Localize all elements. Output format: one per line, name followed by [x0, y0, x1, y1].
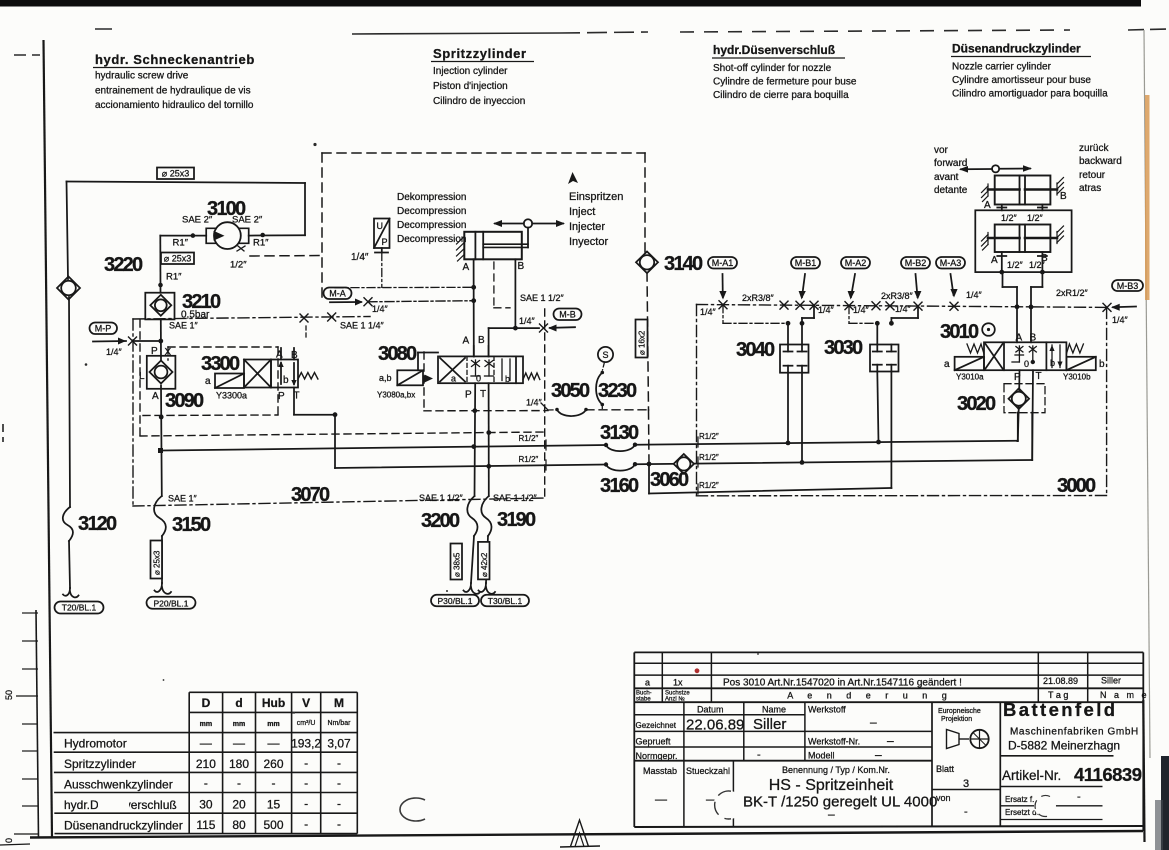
- svg-text:Werkstoff-Nr.: Werkstoff-Nr.: [808, 737, 860, 747]
- svg-text:Modell: Modell: [808, 751, 835, 761]
- measuring arrows down: [719, 274, 957, 300]
- svg-text:—: —: [268, 736, 280, 750]
- svg-text:Nozzle carrier cylinder: Nozzle carrier cylinder: [952, 62, 1052, 73]
- svg-text:Cylindre de fermeture pour bus: Cylindre de fermeture pour buse: [713, 77, 857, 88]
- svg-text:3: 3: [963, 778, 969, 790]
- svg-text:SAE 1 1/2″: SAE 1 1/2″: [520, 293, 565, 303]
- svg-text:⌀ 42x2: ⌀ 42x2: [480, 552, 489, 577]
- svg-text:b: b: [1050, 358, 1055, 368]
- svg-text:3030: 3030: [824, 337, 863, 359]
- svg-text:P: P: [151, 346, 158, 357]
- svg-text:R1/2″: R1/2″: [519, 434, 539, 443]
- svg-text:M: M: [334, 696, 344, 710]
- svg-text:Y3010a: Y3010a: [956, 373, 984, 382]
- connecting frame: [975, 210, 1071, 272]
- dashed transducer line at cylinder B: [494, 262, 510, 308]
- solenoids: [955, 357, 984, 370]
- svg-text:b: b: [283, 375, 289, 386]
- measuring point M-B3: [1111, 280, 1143, 325]
- svg-text:avant: avant: [934, 172, 959, 183]
- svg-text:Cilindro amortiguador para boq: Cilindro amortiguador para boquilla: [952, 89, 1108, 100]
- svg-text:R1/2″: R1/2″: [699, 432, 719, 441]
- svg-text:3220: 3220: [104, 254, 143, 276]
- svg-text:T: T: [480, 389, 486, 400]
- svg-text:a: a: [645, 678, 650, 688]
- svg-text:—: —: [655, 792, 667, 806]
- svg-text:–: –: [870, 715, 877, 729]
- svg-text:3,07: 3,07: [327, 737, 351, 751]
- svg-text:3190: 3190: [497, 509, 536, 531]
- svg-text:M-B3: M-B3: [1117, 281, 1139, 291]
- svg-text:stabe: stabe: [636, 697, 651, 703]
- svg-text:Gezeichnet: Gezeichnet: [636, 721, 677, 730]
- column headers: [93, 42, 1108, 112]
- svg-text:A: A: [984, 200, 991, 211]
- svg-text:A: A: [463, 336, 470, 347]
- svg-text:Decompression: Decompression: [397, 206, 466, 217]
- svg-text:–: –: [828, 807, 835, 821]
- svg-text:-: -: [237, 776, 241, 790]
- wires: cylinders to valve 3010: [1003, 272, 1043, 342]
- svg-text:HS - Spritzeinheit: HS - Spritzeinheit: [769, 777, 894, 794]
- hose 3190: [478, 496, 536, 594]
- svg-text:Maschinenfabriken GmbH: Maschinenfabriken GmbH: [1010, 727, 1139, 738]
- svg-text:—: —: [233, 736, 245, 750]
- svg-text:R1″: R1″: [253, 238, 269, 249]
- svg-text:D: D: [202, 696, 211, 710]
- label box d25x3 mid: [161, 253, 194, 283]
- svg-text:M-A1: M-A1: [712, 258, 734, 268]
- svg-text:B: B: [1030, 333, 1037, 344]
- R1/2 labels right cluster: [699, 432, 719, 490]
- svg-text:-: -: [1077, 791, 1081, 803]
- dashed manifold box B2: [140, 309, 545, 497]
- svg-text:-: -: [304, 797, 308, 811]
- svg-text:entrainement de hydraulique de: entrainement de hydraulique de vis: [95, 86, 251, 97]
- svg-text:Europneische: Europneische: [938, 708, 981, 715]
- svg-text:backward: backward: [1079, 156, 1122, 167]
- svg-text:-: -: [272, 776, 276, 790]
- title block: [634, 652, 1149, 831]
- svg-text:Ausschwenkzylinder: Ausschwenkzylinder: [64, 778, 173, 792]
- measuring point M-A: [324, 287, 474, 314]
- proportional valve 3080: [377, 335, 540, 401]
- svg-text:SAE 1″: SAE 1″: [169, 321, 199, 331]
- svg-text:-: -: [304, 756, 308, 770]
- svg-text:2xR3/8″: 2xR3/8″: [881, 291, 914, 301]
- svg-text:210: 210: [196, 757, 216, 771]
- row names: [64, 737, 183, 833]
- svg-text:B: B: [478, 335, 485, 346]
- svg-text:SAE 1″: SAE 1″: [168, 494, 198, 504]
- dash-dot 3000 box: [697, 305, 1108, 496]
- svg-text:1/4″: 1/4″: [526, 398, 543, 408]
- wire: T drain line lower right: [649, 373, 891, 494]
- svg-text:von: von: [936, 793, 951, 803]
- main block grid: [634, 702, 1143, 827]
- svg-text:M-B1: M-B1: [795, 258, 817, 268]
- svg-text:cm³/U: cm³/U: [297, 720, 316, 727]
- punch hole left: [400, 798, 425, 821]
- white smudge on row 4: [98, 796, 129, 812]
- svg-text:Hydromotor: Hydromotor: [64, 737, 127, 751]
- svg-text:-: -: [337, 776, 341, 790]
- direction arrows with circle: [959, 165, 1032, 172]
- svg-text:Spritzzylinder: Spritzzylinder: [433, 46, 527, 61]
- svg-text:—: —: [200, 736, 212, 750]
- left ruler strip at bottom: [36, 610, 39, 838]
- svg-text:A e n d e r u n g: A e n d e r u n g: [787, 691, 953, 701]
- svg-text:Cilindro de inyeccion: Cilindro de inyeccion: [433, 96, 525, 107]
- directional valve 3010: [940, 321, 1105, 383]
- hose 3150: [151, 496, 211, 594]
- svg-text:Düsenandruckzylinder: Düsenandruckzylinder: [952, 42, 1081, 56]
- svg-text:⌀ 25x3: ⌀ 25x3: [164, 254, 191, 264]
- header texts: [200, 696, 351, 728]
- svg-text:Normgepr.: Normgepr.: [636, 751, 678, 761]
- svg-text:1/2″: 1/2″: [230, 260, 247, 271]
- svg-text:3020: 3020: [957, 393, 996, 415]
- svg-text:BK-T /1250 geregelt UL 4000: BK-T /1250 geregelt UL 4000: [743, 794, 937, 811]
- svg-text:SAE 1 1/4″: SAE 1 1/4″: [340, 321, 385, 331]
- svg-text:193,2: 193,2: [291, 737, 321, 751]
- svg-text:hydr. Schneckenantrieb: hydr. Schneckenantrieb: [95, 52, 255, 67]
- valve block 3040: [736, 323, 809, 462]
- svg-text:3200: 3200: [421, 510, 460, 532]
- svg-text:Inyector: Inyector: [569, 236, 608, 248]
- wire: cylinder B line: [489, 259, 539, 356]
- injection cylinder: [457, 219, 566, 273]
- port oval P30/BL.1: [431, 595, 479, 607]
- svg-text:–: –: [875, 748, 882, 762]
- svg-text:3090: 3090: [165, 390, 204, 412]
- fold triangle bottom center: [571, 820, 589, 847]
- svg-text:1/2″: 1/2″: [1027, 213, 1044, 223]
- svg-text:3300: 3300: [201, 353, 240, 375]
- svg-text:-: -: [337, 756, 341, 770]
- measuring point M-B: [519, 309, 582, 333]
- svg-text:M-A2: M-A2: [845, 258, 867, 268]
- data table bottom left: [54, 692, 358, 833]
- svg-text:Decompression: Decompression: [397, 220, 466, 231]
- svg-text:B: B: [1060, 191, 1067, 202]
- svg-text:30: 30: [199, 798, 213, 812]
- svg-text:hydraulic screw drive: hydraulic screw drive: [95, 71, 189, 82]
- svg-text:-: -: [304, 776, 308, 790]
- svg-text:R1″: R1″: [173, 238, 189, 249]
- svg-text:Y3300a: Y3300a: [216, 391, 247, 401]
- svg-text:3160: 3160: [600, 475, 639, 497]
- wire: top line to motor: [67, 182, 306, 236]
- svg-text:zurück: zurück: [1079, 143, 1109, 154]
- svg-text:Injection cylinder: Injection cylinder: [433, 66, 508, 77]
- svg-text:R1/2″: R1/2″: [699, 481, 719, 490]
- svg-text:Y3080a,bx: Y3080a,bx: [377, 391, 415, 400]
- svg-text:A: A: [463, 262, 470, 273]
- svg-text:M-A3: M-A3: [940, 258, 962, 268]
- svg-text:M-P: M-P: [95, 324, 112, 334]
- svg-text:22.06.89: 22.06.89: [686, 717, 744, 734]
- svg-text:b: b: [1099, 359, 1105, 370]
- svg-text:⌀ 25x3: ⌀ 25x3: [153, 550, 162, 575]
- wire: pump riser left: [67, 182, 71, 508]
- right scan edge: [1144, 30, 1150, 758]
- svg-text:P: P: [382, 237, 388, 247]
- svg-text:3120: 3120: [78, 513, 117, 535]
- svg-text:500: 500: [263, 818, 283, 832]
- svg-text:SAE 1 1/2″: SAE 1 1/2″: [493, 493, 538, 503]
- svg-text:accionamiento hidraulico del t: accionamiento hidraulico del tornillo: [95, 100, 254, 111]
- svg-text:-: -: [337, 797, 341, 811]
- svg-text:-: -: [757, 749, 761, 761]
- svg-text:X: X: [165, 347, 172, 358]
- svg-text:Cylindre amortisseur pour buse: Cylindre amortisseur pour buse: [952, 75, 1091, 86]
- svg-text:Einspritzen: Einspritzen: [569, 191, 623, 203]
- springs: [967, 344, 984, 354]
- svg-text:R1/2″: R1/2″: [519, 455, 539, 464]
- svg-text:d: d: [235, 696, 242, 710]
- svg-text:P20/BL.1: P20/BL.1: [154, 598, 189, 608]
- svg-text:3080: 3080: [378, 343, 417, 365]
- svg-text:atras: atras: [1079, 183, 1101, 194]
- wire: main vertical 3220 line: [158, 236, 164, 496]
- svg-text:retour: retour: [1079, 170, 1106, 181]
- hose 3120: [63, 507, 117, 597]
- port oval T20/BL.1: [55, 602, 104, 614]
- svg-text:⌀ 25x3: ⌀ 25x3: [162, 169, 189, 179]
- svg-text:mm: mm: [233, 721, 245, 728]
- svg-text:detante: detante: [934, 185, 968, 196]
- svg-text:b: b: [505, 374, 510, 384]
- svg-text:115: 115: [196, 818, 215, 832]
- coupling 3060: [650, 454, 694, 491]
- svg-text:1/2″: 1/2″: [1029, 260, 1046, 270]
- T line of 3300 down to return: [293, 388, 295, 415]
- punch hole right (white blob): [714, 791, 743, 820]
- wire: long P pipe: [162, 413, 1018, 451]
- svg-text:3070: 3070: [291, 484, 330, 506]
- svg-text:3010: 3010: [940, 321, 979, 343]
- dash-dot 3070 box: [133, 319, 545, 506]
- svg-text:a: a: [205, 376, 211, 387]
- svg-text:80: 80: [232, 818, 246, 832]
- svg-text:Benennung / Typ / Kom.Nr.: Benennung / Typ / Kom.Nr.: [782, 765, 890, 775]
- svg-text:1/4″: 1/4″: [106, 347, 123, 357]
- hose 3200: [421, 496, 480, 594]
- svg-text:M-B: M-B: [559, 310, 576, 320]
- svg-text:–: –: [887, 734, 894, 748]
- svg-text:260: 260: [263, 757, 283, 771]
- svg-text:3040: 3040: [736, 339, 775, 361]
- svg-text:3150: 3150: [172, 514, 211, 536]
- svg-text:A: A: [152, 391, 159, 402]
- dashed spritzzylinder box: [250, 153, 649, 464]
- svg-text:Stueckzahl: Stueckzahl: [686, 766, 730, 776]
- svg-text:2xR3/8″: 2xR3/8″: [742, 293, 775, 303]
- hose 3160: [600, 462, 639, 497]
- svg-text:Anz‌l №: Anz‌l №: [665, 696, 685, 703]
- svg-text:Y3010b: Y3010b: [1063, 373, 1091, 382]
- svg-text:1x: 1x: [673, 678, 683, 688]
- svg-text:-: -: [337, 817, 341, 831]
- svg-text:P: P: [278, 391, 285, 402]
- hose 3130: [600, 422, 639, 451]
- svg-text:hydr.Düsenverschluß: hydr.Düsenverschluß: [713, 43, 835, 57]
- coupling symbol left riser: [57, 277, 80, 300]
- table grid: [54, 692, 358, 833]
- solenoid valve 3300: [201, 348, 337, 468]
- svg-text:Düsenandruckzylinder: Düsenandruckzylinder: [64, 819, 183, 833]
- svg-text:R1/2″: R1/2″: [699, 453, 719, 462]
- svg-text:Injecter: Injecter: [569, 221, 605, 233]
- svg-text:U: U: [377, 221, 384, 231]
- svg-text:mm: mm: [267, 721, 279, 728]
- svg-text:0: 0: [4, 838, 14, 843]
- port oval T30/BL.1: [481, 595, 529, 607]
- svg-text:P: P: [465, 390, 472, 401]
- svg-text:T30/BL.1: T30/BL.1: [488, 596, 523, 606]
- svg-text:SAE 2″: SAE 2″: [182, 215, 213, 226]
- svg-text:Ersatz f.: Ersatz f.: [1005, 795, 1034, 804]
- svg-text:SAE 2″: SAE 2″: [232, 215, 263, 226]
- R1/2 labels center: [519, 434, 539, 464]
- svg-text:3060: 3060: [650, 469, 689, 491]
- svg-text:1/4″: 1/4″: [372, 304, 389, 314]
- port oval P20/BL.1: [147, 597, 196, 609]
- U/P transducer: [351, 219, 390, 288]
- svg-text:Artikel-Nr.: Artikel-Nr.: [1002, 768, 1061, 783]
- revision table grid: [634, 652, 1143, 831]
- svg-text:B: B: [518, 261, 525, 272]
- svg-text:Decompression: Decompression: [397, 234, 466, 245]
- svg-text:T20/BL.1: T20/BL.1: [62, 603, 97, 613]
- svg-text:M-A: M-A: [329, 289, 346, 299]
- svg-text:1/4″: 1/4″: [818, 305, 835, 315]
- check valve 3020: [957, 370, 1045, 460]
- svg-text:A: A: [1016, 333, 1023, 344]
- svg-text:180: 180: [229, 757, 249, 771]
- dashed box fragment under 3080: [424, 352, 548, 411]
- svg-text:1/4″: 1/4″: [895, 304, 912, 314]
- Battenfeld logo: [1001, 699, 1142, 820]
- svg-text:T: T: [1036, 371, 1042, 382]
- top black bar: [0, 0, 1141, 7]
- svg-text:D-5882 Meinerzhag‌n: D-5882 Meinerzhag‌n: [1008, 739, 1120, 753]
- svg-text:vor: vor: [934, 145, 949, 156]
- svg-text:1/2″: 1/2″: [1001, 213, 1018, 223]
- svg-text:Dekompression: Dekompression: [397, 192, 466, 203]
- svg-text:Piston d'injection: Piston d'injection: [433, 81, 508, 92]
- upper nozzle cylinder: [982, 176, 1068, 224]
- svg-text:Cilindro de cierre para boquil: Cilindro de cierre para boquilla: [713, 90, 849, 101]
- svg-text:-: -: [204, 776, 208, 790]
- decompression text block: [397, 192, 466, 245]
- svg-text:Pos 3010 Art.Nr.1547020 in Art: Pos 3010 Art.Nr.1547020 in Art.Nr.154711…: [723, 678, 962, 689]
- projection symbol: [947, 730, 989, 749]
- svg-text:Shot-off cylinder for nozzle: Shot-off cylinder for nozzle: [713, 63, 832, 74]
- label box d25x3 top: [157, 168, 194, 180]
- svg-text:1/4″: 1/4″: [519, 316, 536, 326]
- svg-text:V: V: [302, 696, 310, 710]
- svg-text:Battenfeld: Battenfeld: [1003, 699, 1117, 720]
- svg-text:P30/BL.1: P30/BL.1: [438, 596, 473, 606]
- svg-text:3140: 3140: [664, 253, 703, 275]
- svg-text:M-B2: M-B2: [905, 258, 927, 268]
- svg-text:1/2″: 1/2″: [1007, 260, 1024, 270]
- svg-text:Siller: Siller: [1101, 676, 1121, 686]
- svg-text:1/4″: 1/4″: [853, 305, 870, 315]
- svg-text:⌀ 16x2: ⌀ 16x2: [638, 330, 647, 355]
- svg-text:1/4″: 1/4″: [1112, 315, 1129, 325]
- hydromotor 3100: [160, 198, 305, 271]
- check valve 3090: [139, 346, 204, 412]
- svg-text:4116839: 4116839: [1074, 764, 1142, 785]
- port links to 3040: [723, 305, 814, 326]
- rotated label 16x2: [636, 320, 648, 358]
- einspritzen text block: [568, 172, 623, 248]
- svg-text:Hub: Hub: [262, 696, 285, 710]
- check valve 3210: [145, 291, 221, 321]
- svg-text:3230: 3230: [598, 380, 637, 402]
- svg-text:A: A: [276, 350, 283, 361]
- svg-text:3050: 3050: [551, 380, 590, 402]
- svg-text:Datum: Datum: [697, 705, 724, 715]
- bottom page border: [30, 834, 634, 838]
- svg-text:Masstab: Masstab: [643, 766, 677, 776]
- svg-text:1/4″: 1/4″: [351, 252, 369, 263]
- svg-text:0: 0: [1024, 359, 1029, 369]
- wires: 3080 P/T down: [475, 383, 492, 496]
- svg-text:Inject: Inject: [569, 206, 595, 218]
- measuring point M-P: [90, 323, 161, 358]
- svg-text:1/4″: 1/4″: [700, 307, 717, 317]
- coupling 3140: [636, 252, 703, 276]
- wire: cylinder A line: [471, 259, 476, 356]
- svg-text:forward: forward: [934, 158, 967, 169]
- svg-text:2xR1/2″: 2xR1/2″: [1056, 288, 1089, 298]
- svg-text:a: a: [944, 359, 950, 370]
- svg-text:-: -: [304, 817, 308, 831]
- dashed box around 3090/3300: [143, 347, 278, 416]
- svg-text:20: 20: [232, 798, 246, 812]
- svg-text:⌀ 38x5: ⌀ 38x5: [453, 552, 462, 577]
- svg-text:mm: mm: [200, 721, 212, 728]
- svg-text:Werkstoff: Werkstoff: [808, 705, 846, 715]
- svg-text:0: 0: [476, 374, 481, 384]
- svg-text:3130: 3130: [600, 422, 639, 444]
- svg-text:Name: Name: [762, 705, 786, 715]
- svg-text:Nm/bar: Nm/bar: [328, 720, 352, 727]
- svg-text:1/4″: 1/4″: [966, 290, 983, 300]
- svg-text:S: S: [602, 350, 608, 360]
- lower nozzle cylinder: [982, 225, 1064, 275]
- svg-text:Blatt: Blatt: [936, 764, 955, 774]
- svg-text:Projektion: Projektion: [941, 716, 972, 723]
- svg-text:a,b: a,b: [379, 373, 392, 383]
- svg-text:Geprueft: Geprueft: [636, 737, 672, 747]
- svg-text:SAE 1 1/2″: SAE 1 1/2″: [419, 493, 464, 503]
- port links to 3030: [849, 306, 918, 326]
- svg-text:21.08.89: 21.08.89: [1043, 676, 1078, 686]
- hose 3050: [548, 380, 649, 416]
- measuring ovals row: [708, 257, 965, 269]
- svg-text:a: a: [451, 374, 456, 384]
- svg-text:Spritzzylinder: Spritzzylinder: [64, 757, 136, 771]
- svg-text:3000: 3000: [1057, 475, 1096, 497]
- svg-text:-: -: [964, 806, 968, 818]
- top dashed scan line: [14, 29, 1169, 55]
- left page border (slightly skewed scan): [44, 40, 53, 838]
